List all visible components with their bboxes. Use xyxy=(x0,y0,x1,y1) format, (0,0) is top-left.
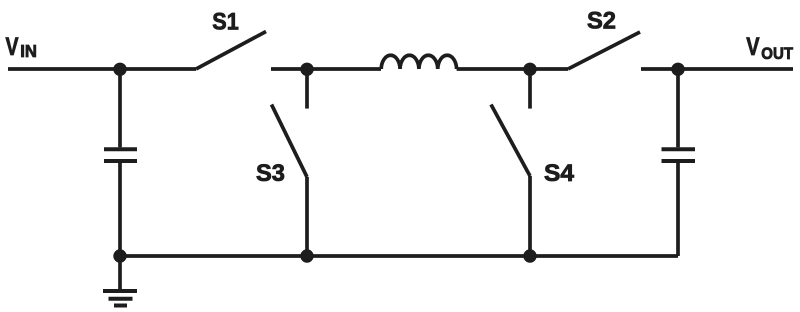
switch S1 blade xyxy=(196,32,266,70)
svg-text:S1: S1 xyxy=(212,8,238,35)
capacitor C-IN bottom plate xyxy=(104,159,137,163)
wire: S4 bottom contact to ground rail xyxy=(528,176,532,256)
wire: SW2 node down to S4 top contact xyxy=(528,69,532,109)
node: ground rail left (C-IN / ground) xyxy=(113,249,126,262)
svg-text:S4: S4 xyxy=(544,160,575,187)
node: L1 / S4 / S2 junction xyxy=(523,63,536,76)
svg-text:IN: IN xyxy=(20,41,37,61)
wire: SW1 node down to S3 top contact xyxy=(305,69,309,109)
wire: VOUT node down to output capacitor xyxy=(676,69,680,147)
capacitor C-OUT top plate xyxy=(662,147,696,151)
node: VIN / C-IN / S1 junction xyxy=(113,63,126,76)
capacitor C-OUT bottom plate xyxy=(662,159,696,163)
svg-text:V: V xyxy=(6,33,19,61)
capacitor C-IN top plate xyxy=(104,147,137,151)
wire: VIN input rail xyxy=(8,67,196,71)
node: VOUT / C-OUT junction xyxy=(671,63,684,76)
node: ground rail / S4 xyxy=(523,249,536,262)
wire: ground stem below left node xyxy=(118,256,122,289)
node: S1 / S3 / L1 junction xyxy=(300,63,313,76)
wire: bottom ground rail xyxy=(120,254,678,258)
wire: output capacitor to ground rail xyxy=(676,163,680,257)
svg-text:OUT: OUT xyxy=(761,44,793,63)
switch S2 blade xyxy=(568,32,640,69)
wire: input capacitor to ground rail node xyxy=(118,163,122,257)
inductor L1 xyxy=(381,55,456,69)
wire: S3 bottom contact to ground rail xyxy=(305,177,309,256)
node: ground rail / S3 xyxy=(300,249,313,262)
switch S3 blade xyxy=(272,105,308,178)
svg-text:S3: S3 xyxy=(256,160,285,187)
switch S4 blade xyxy=(491,105,530,177)
svg-text:V: V xyxy=(746,33,759,61)
wire: S2 right contact to VOUT xyxy=(641,67,793,71)
wire: inductor to S2 left contact xyxy=(457,67,568,71)
wire: S1 right contact to inductor xyxy=(271,67,381,71)
svg-text:S2: S2 xyxy=(587,8,616,35)
ground symbol xyxy=(103,291,137,306)
wire: VIN node down to input capacitor xyxy=(118,69,122,147)
